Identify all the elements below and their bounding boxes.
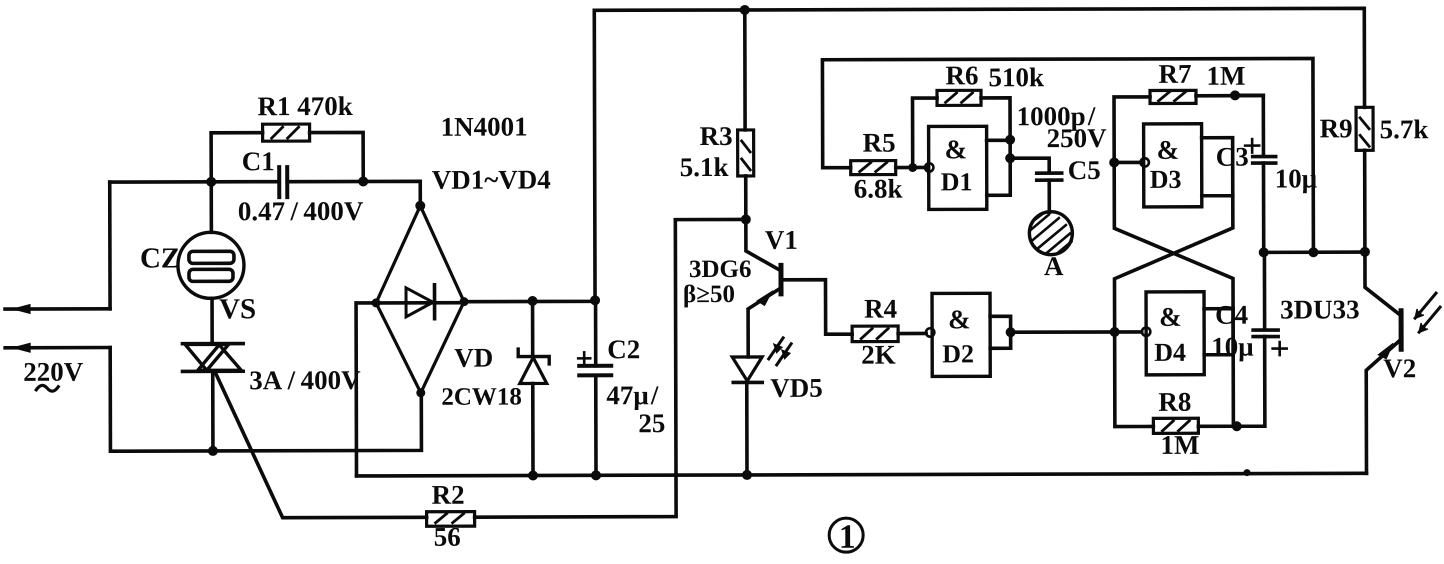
- svg-text:VD5: VD5: [770, 373, 823, 403]
- svg-text:10μ: 10μ: [1275, 163, 1317, 193]
- bridge inner diode triangle: [406, 288, 433, 317]
- wire C5 to annunciator A: [1047, 180, 1051, 212]
- node R7 left / D3 input: [1109, 157, 1119, 167]
- svg-text:2CW18: 2CW18: [441, 384, 522, 411]
- wire mid rail: [1264, 250, 1365, 254]
- node top bus / R3: [740, 5, 750, 15]
- svg-text:D3: D3: [1150, 165, 1182, 194]
- svg-text:47μ /: 47μ /: [606, 380, 659, 410]
- gate D1 output tab: [987, 140, 1011, 195]
- phototransistor V2 collector: [1365, 252, 1401, 316]
- wire R4 right lead: [898, 332, 926, 336]
- resistor R4 body: [852, 326, 898, 342]
- svg-text:VD1~VD4: VD1~VD4: [432, 164, 551, 194]
- svg-text:C5: C5: [1068, 155, 1101, 185]
- wire VD5 bottom lead: [745, 382, 749, 474]
- svg-text:C2: C2: [607, 334, 640, 364]
- wire main phase wire y=180.5 right of C1: [287, 181, 420, 206]
- figure number circle: [829, 518, 863, 552]
- resistor R2 body: [427, 512, 475, 527]
- annunciator A circle hatched: [1029, 212, 1072, 255]
- node DC+ / zener VD: [528, 296, 538, 306]
- wire zener VD top lead: [531, 301, 535, 354]
- gate D3 box: [1144, 124, 1202, 207]
- svg-text:&: &: [948, 304, 971, 334]
- wire C4 bottom to D4 output node: [1237, 337, 1265, 427]
- svg-text:R3: R3: [700, 121, 733, 151]
- wire feedback: R5 left up and across top: [822, 58, 1313, 253]
- gate D2 input circle: [926, 328, 934, 336]
- resistor R6 left wire: [913, 98, 938, 167]
- resistor R9 body (vertical): [1356, 107, 1373, 150]
- resistor R6 right wire: [981, 98, 1010, 140]
- arrow left on bottom terminal: [13, 343, 30, 352]
- resistor R8 body: [1153, 418, 1198, 433]
- capacitor C2 plus sign: [578, 352, 590, 364]
- gate D2 output tab: [990, 316, 1011, 348]
- svg-text:5.7k: 5.7k: [1380, 114, 1429, 144]
- svg-text:D1: D1: [941, 167, 973, 196]
- svg-text:1N4001: 1N4001: [441, 112, 528, 142]
- node collector R3 R2: [741, 214, 751, 224]
- wire left vertical from main wire to top terminal: [108, 182, 112, 309]
- resistor R6 body: [937, 90, 981, 105]
- wire R9 bottom to mid rail: [1363, 150, 1367, 251]
- svg-text:VD: VD: [454, 343, 493, 373]
- svg-text:R5: R5: [863, 128, 896, 158]
- node VD5 / ground rail: [742, 470, 752, 480]
- bridge inner diode cathode bar: [433, 285, 437, 319]
- svg-text:1M: 1M: [1160, 430, 1199, 460]
- svg-text:2K: 2K: [861, 340, 896, 370]
- gate D3 output tab: [1202, 138, 1233, 196]
- socket CZ circle: [178, 232, 244, 298]
- node main wire / R1 right / C1: [358, 176, 368, 186]
- svg-text:5.1k: 5.1k: [680, 152, 729, 182]
- svg-text:3DG6: 3DG6: [689, 256, 752, 283]
- svg-text:C1: C1: [242, 146, 275, 176]
- LED VD5 cathode bar: [733, 381, 762, 385]
- node C2 / ground rail: [591, 470, 601, 480]
- wire R1 right branch: [310, 132, 364, 181]
- wire neutral: bottom terminal down and right to bridge bottom vertex: [110, 347, 421, 452]
- LED VD5 triangle: [732, 357, 762, 381]
- svg-text:250V: 250V: [1047, 123, 1108, 153]
- node D4 output / R8 / C4: [1232, 421, 1242, 431]
- svg-text:D4: D4: [1154, 338, 1186, 367]
- node D2-D4 wire / cross couple: [1110, 327, 1120, 337]
- wire R5 right to D1 input: [896, 166, 925, 170]
- zener diode VD 2CW18 cathode bar with wings: [518, 349, 549, 364]
- wire main phase wire y=180.5 left of C1: [110, 180, 279, 184]
- resistor R1 body: [263, 124, 310, 141]
- node triac / neutral: [208, 446, 218, 456]
- resistor R5 body: [851, 161, 896, 175]
- svg-text:V1: V1: [765, 225, 798, 255]
- wire bridge right vertex DC+ node: [464, 300, 595, 301]
- svg-text:3DU33: 3DU33: [1280, 294, 1360, 324]
- svg-text:&: &: [1157, 135, 1180, 165]
- svg-text:R4: R4: [864, 294, 897, 324]
- gate D4 output tab: [1204, 309, 1233, 355]
- wire ground rail: [357, 473, 1367, 476]
- capacitor C3 plates: [1253, 155, 1276, 159]
- wire CZ to triac VS: [210, 298, 214, 343]
- zener VD triangle: [520, 357, 547, 383]
- wire C3 bottom to mid rail: [1262, 163, 1266, 252]
- wire bridge left vertex to ground rail start: [356, 303, 376, 476]
- node bridge bottom vertex: [416, 388, 425, 397]
- node R6 right / D1 output: [1005, 135, 1015, 145]
- svg-text:&: &: [945, 134, 968, 164]
- transistor V1 collector: [746, 219, 781, 271]
- svg-text:56: 56: [434, 522, 461, 552]
- LED VD5 light arrows: [769, 338, 784, 359]
- node mid rail / R9 V2: [1360, 247, 1370, 257]
- wire D3 input: [1114, 161, 1140, 165]
- tilde under 220V: [36, 385, 58, 391]
- svg-text:A: A: [1044, 251, 1064, 281]
- wire top bus: [594, 8, 1365, 300]
- triac VS symbol: [182, 342, 243, 346]
- node bottom rail artifact: [1243, 469, 1250, 476]
- svg-text:R7: R7: [1158, 59, 1191, 89]
- svg-text:C4: C4: [1215, 300, 1248, 330]
- phototransistor V2 base bar: [1399, 311, 1404, 349]
- node bridge left vertex: [372, 298, 381, 307]
- node R6 left / D1 input: [908, 163, 917, 172]
- transistor V1 base bar: [778, 265, 783, 293]
- capacitor C3 top wire: [1235, 95, 1263, 155]
- capacitor C2 top lead: [594, 300, 598, 365]
- capacitor C1 plates: [277, 167, 281, 197]
- node mid rail / C3 C4: [1259, 247, 1269, 257]
- svg-text:10μ: 10μ: [1211, 332, 1253, 362]
- svg-text:R1 470k: R1 470k: [257, 91, 352, 121]
- node bridge right vertex: [460, 297, 469, 306]
- svg-text:0.47 / 400V: 0.47 / 400V: [238, 196, 364, 226]
- svg-text:D2: D2: [942, 339, 974, 368]
- resistor R7 left wire: [1114, 97, 1150, 163]
- svg-text:C3: C3: [1216, 142, 1249, 172]
- node D2 output: [1006, 327, 1016, 337]
- wire cross-couple D3-input to D4-output: [1114, 162, 1233, 426]
- wire R3 top lead: [743, 10, 747, 130]
- svg-text:R6: R6: [945, 60, 978, 90]
- transistor V1 emitter with arrow: [748, 288, 781, 357]
- wire CZ top lead: [209, 182, 213, 232]
- node bridge top vertex: [415, 201, 425, 211]
- node zener / ground rail: [528, 470, 538, 480]
- wire C2 bottom lead: [594, 375, 598, 475]
- node DC+ / C2: [590, 295, 600, 305]
- capacitor C5 plates: [1037, 171, 1062, 175]
- resistor R7 right wire: [1196, 94, 1263, 98]
- wire D2 output to D4 input: [1011, 330, 1142, 334]
- svg-text:6.8k: 6.8k: [854, 174, 903, 204]
- bridge inner diode line: [376, 301, 464, 305]
- wire collector node horizontal: [675, 218, 745, 222]
- svg-text:1M: 1M: [1206, 61, 1245, 91]
- wire R8 right lead: [1198, 424, 1236, 428]
- capacitor C3 plus sign: [1245, 139, 1259, 153]
- gate D1 input circle: [925, 163, 933, 171]
- wire R3 bottom lead: [744, 176, 748, 219]
- svg-text:25: 25: [638, 408, 665, 438]
- wire V1 base lead to R4: [781, 280, 852, 335]
- svg-text:R8: R8: [1158, 387, 1191, 417]
- svg-text:β≥50: β≥50: [683, 281, 735, 308]
- wire triac bottom to neutral: [211, 371, 215, 451]
- arrow left on top terminal: [13, 305, 30, 314]
- svg-text:220V: 220V: [23, 357, 84, 387]
- wire triac gate diagonal to R2: [215, 372, 426, 518]
- rectifier bridge VD1~VD4 diamond: [376, 206, 464, 393]
- gate D3 input circle: [1140, 158, 1148, 166]
- capacitor C4 plus sign: [1273, 342, 1287, 355]
- node R7 right / C3 / D3 output: [1230, 90, 1240, 100]
- capacitor C2 plates: [579, 364, 611, 368]
- resistor R7 body: [1150, 90, 1196, 103]
- svg-text:R9: R9: [1320, 113, 1353, 143]
- svg-text:V2: V2: [1383, 353, 1416, 383]
- wire zener VD bottom lead: [531, 383, 535, 475]
- wire cross-couple D3-output to D4-input: [1114, 196, 1233, 427]
- wire mid rail to C4: [1263, 252, 1267, 329]
- gate D4 box: [1146, 292, 1204, 375]
- gate D1 box: [929, 126, 987, 209]
- svg-text:CZ: CZ: [140, 242, 180, 274]
- wire 220V line terminal top: [5, 307, 110, 311]
- node main wire / CZ / R1: [206, 177, 216, 187]
- wire 220V line terminal bottom: [5, 346, 110, 350]
- capacitor C4 plates: [1253, 328, 1278, 332]
- svg-text:3A / 400V: 3A / 400V: [249, 365, 361, 395]
- gate D2 box: [932, 293, 990, 376]
- svg-text:510k: 510k: [988, 62, 1044, 92]
- wire D1 output to C5: [1010, 158, 1049, 173]
- phototransistor V2 light arrows: [1415, 293, 1436, 318]
- node D1 output / C5: [1005, 153, 1015, 163]
- svg-text:VS: VS: [219, 293, 256, 325]
- svg-text:R2: R2: [432, 480, 465, 510]
- node mid rail / feedback wire: [1308, 247, 1318, 257]
- phototransistor V2 emitter with arrow: [1366, 339, 1401, 473]
- wire R1 left branch: [211, 133, 263, 182]
- resistor R3 body (vertical): [738, 130, 754, 176]
- wire R2 right to collector node riser: [474, 221, 676, 518]
- svg-text:&: &: [1159, 302, 1182, 332]
- gate D4 input circle: [1142, 327, 1150, 335]
